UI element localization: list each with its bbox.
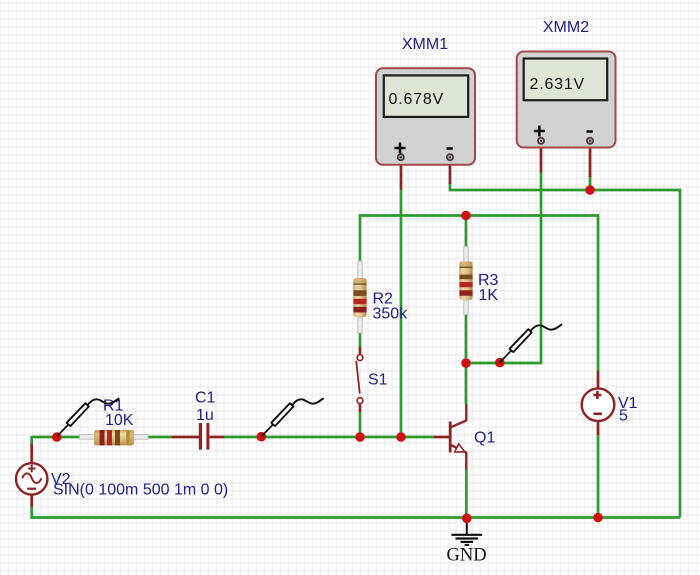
- svg-text:S1: S1: [368, 372, 388, 389]
- svg-text:2.631V: 2.631V: [530, 76, 586, 93]
- svg-text:10K: 10K: [105, 412, 134, 429]
- svg-text:GND: GND: [447, 546, 487, 566]
- svg-text:SIN(0 100m 500 1m 0 0): SIN(0 100m 500 1m 0 0): [53, 481, 228, 498]
- svg-text:5: 5: [619, 408, 628, 425]
- svg-text:350k: 350k: [373, 305, 409, 322]
- svg-text:1u: 1u: [196, 407, 214, 424]
- svg-text:Q1: Q1: [474, 430, 495, 447]
- svg-text:1K: 1K: [479, 287, 499, 304]
- svg-text:XMM1: XMM1: [402, 36, 448, 53]
- svg-text:XMM2: XMM2: [543, 19, 589, 36]
- svg-text:C1: C1: [195, 390, 216, 407]
- svg-text:0.678V: 0.678V: [389, 91, 445, 108]
